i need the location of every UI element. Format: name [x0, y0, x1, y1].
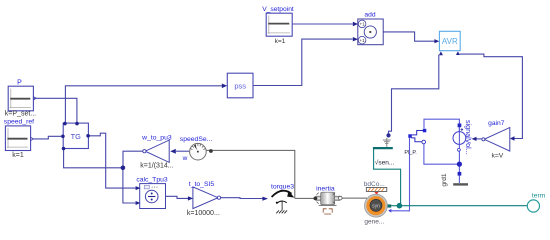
svg-text:w_to_pu3: w_to_pu3: [141, 134, 172, 141]
svg-text:calc_Tpu3: calc_Tpu3: [136, 177, 168, 184]
svg-text:k=P_set...: k=P_set...: [5, 111, 36, 118]
svg-text:TG: TG: [71, 132, 82, 141]
svg-text:√sen...: √sen...: [375, 159, 395, 167]
svg-text:pss: pss: [234, 81, 246, 90]
svg-text:add: add: [364, 11, 375, 18]
svg-text:+1: +1: [359, 38, 365, 43]
svg-text:k=1/(314...: k=1/(314...: [140, 162, 173, 169]
svg-text:syn: syn: [372, 204, 380, 210]
svg-text:gain7: gain7: [488, 120, 505, 127]
svg-text:+1: +1: [359, 22, 365, 27]
svg-text:k=1: k=1: [12, 152, 24, 159]
svg-text:inertia: inertia: [316, 185, 335, 192]
svg-text:P: P: [17, 80, 22, 87]
svg-text:term: term: [532, 193, 546, 200]
svg-text:k=1: k=1: [275, 38, 286, 45]
svg-text:bdCo...: bdCo...: [364, 181, 385, 188]
svg-text:torque3: torque3: [271, 184, 294, 191]
svg-text:Pl_P.: Pl_P.: [404, 150, 417, 156]
svg-text:V_setpoint: V_setpoint: [262, 6, 294, 13]
svg-text:k=10000...: k=10000...: [187, 210, 220, 217]
svg-text:AVR: AVR: [442, 37, 458, 46]
svg-text:k=V: k=V: [491, 152, 503, 159]
svg-text:grd1: grd1: [441, 173, 448, 187]
svg-text:speed_ref: speed_ref: [4, 118, 34, 125]
svg-text:gene...: gene...: [364, 219, 384, 226]
svg-text:speedSe...: speedSe...: [180, 136, 213, 143]
svg-text:w: w: [182, 155, 188, 162]
svg-text:signalVol...: signalVol...: [464, 120, 473, 155]
svg-text:t_to_SI5: t_to_SI5: [189, 181, 215, 188]
